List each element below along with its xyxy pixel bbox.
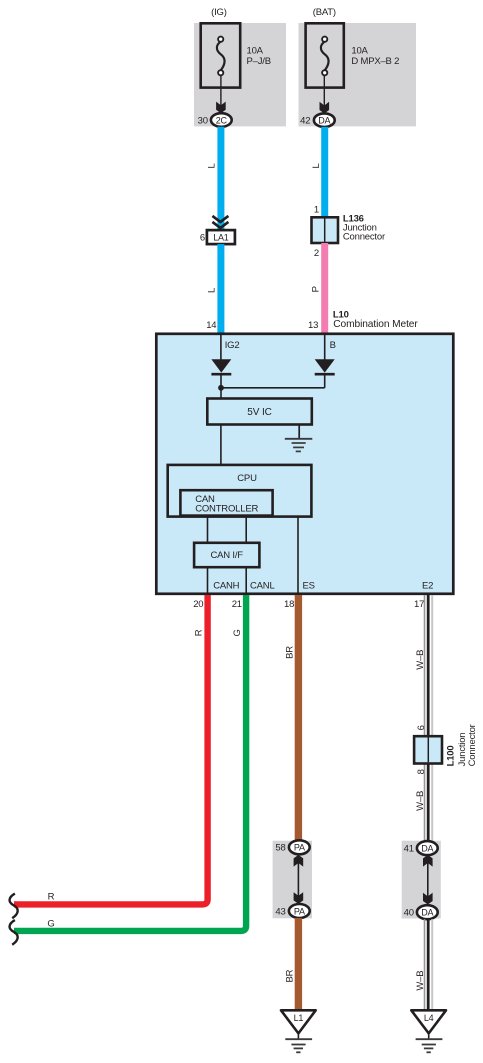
svg-text:Combination Meter: Combination Meter — [333, 319, 418, 330]
break squiggle red wire — [10, 894, 18, 919]
svg-text:(BAT): (BAT) — [313, 7, 336, 18]
svg-text:14: 14 — [206, 320, 216, 331]
connector oval DA pin 42 — [300, 113, 335, 127]
pin IG2 lead — [220, 335, 222, 360]
wire BR brown (lower) — [295, 918, 302, 1010]
svg-text:G: G — [232, 629, 243, 636]
svg-text:40: 40 — [404, 908, 414, 919]
wire W-B (E2) upper segment — [425, 595, 433, 842]
svg-text:CANH: CANH — [213, 581, 239, 592]
svg-text:L: L — [206, 288, 217, 293]
svg-text:18: 18 — [284, 599, 294, 610]
ground symbol L1 — [285, 1039, 312, 1052]
ground symbol L4 — [416, 1039, 443, 1052]
junction connector L136 — [312, 205, 385, 260]
svg-text:2: 2 — [314, 248, 319, 259]
svg-text:CONTROLLER: CONTROLLER — [195, 503, 258, 514]
svg-text:E2: E2 — [422, 581, 433, 592]
pin B lead — [324, 335, 326, 360]
fuse F2 10A D MPX-B 2 — [306, 23, 400, 87]
svg-text:DA: DA — [421, 843, 433, 853]
svg-text:L100: L100 — [445, 746, 456, 767]
svg-text:DA: DA — [421, 908, 433, 918]
svg-text:1: 1 — [314, 205, 319, 216]
wire L blue (lower, to pin 14) — [217, 244, 224, 333]
connector LA1 pin 6 — [200, 216, 235, 244]
break squiggle green wire — [10, 920, 18, 945]
svg-text:G: G — [47, 918, 54, 929]
diode D2 — [315, 359, 335, 388]
svg-text:30: 30 — [198, 115, 208, 126]
svg-text:CANL: CANL — [250, 581, 275, 592]
svg-text:5V IC: 5V IC — [247, 407, 272, 418]
svg-text:ES: ES — [303, 581, 315, 592]
svg-text:W–B: W–B — [415, 791, 426, 811]
wire P pink — [321, 243, 328, 333]
svg-text:58: 58 — [275, 843, 285, 854]
svg-text:CAN I/F: CAN I/F — [211, 550, 244, 561]
wire CAN controller to CAN I/F (left) — [207, 517, 209, 543]
connector oval 2C pin 30 — [198, 113, 232, 127]
wire CAN I/F to CANL pin — [245, 567, 247, 593]
svg-text:6: 6 — [200, 233, 205, 244]
wire BR brown (ES) upper — [295, 595, 302, 841]
CAN I/F box — [194, 543, 259, 567]
svg-text:2C: 2C — [216, 115, 228, 125]
wire between DA connectors — [427, 861, 429, 900]
wire L blue (BAT feed) — [321, 127, 328, 218]
svg-text:21: 21 — [232, 599, 242, 610]
svg-text:R: R — [194, 629, 205, 636]
gray panel DA connectors — [402, 841, 441, 919]
svg-text:(IG): (IG) — [211, 7, 227, 18]
arrow down into 40 DA — [423, 893, 433, 905]
svg-text:P–J/B: P–J/B — [247, 56, 271, 67]
fuse block gray panel (BAT side) — [299, 23, 417, 126]
svg-text:CPU: CPU — [237, 473, 257, 484]
connector oval 40 DA — [404, 905, 438, 919]
svg-text:L4: L4 — [424, 1013, 434, 1023]
svg-text:W–B: W–B — [415, 971, 426, 991]
arrow up into 41 DA — [423, 855, 433, 867]
svg-text:L: L — [206, 163, 217, 168]
CPU box — [168, 465, 312, 517]
connector oval 41 DA — [404, 841, 438, 855]
arrow up into 58 PA — [294, 855, 304, 867]
connector oval 43 PA — [275, 904, 309, 918]
ground stem L4 — [428, 1033, 430, 1039]
CAN controller box — [180, 490, 272, 515]
fuse F1 10A P-J/B — [201, 23, 271, 87]
svg-text:W–B: W–B — [415, 650, 426, 670]
wire 5V IC to ground — [298, 425, 300, 439]
svg-text:6: 6 — [416, 725, 427, 730]
wire G green (CANL) — [14, 595, 246, 931]
wire L blue (IG feed, upper) — [217, 127, 224, 231]
wire CPU to ES pin — [297, 517, 299, 593]
5V IC box — [207, 399, 311, 425]
svg-text:43: 43 — [275, 906, 285, 917]
svg-text:Connector: Connector — [467, 724, 478, 766]
wire 5V IC to CPU — [220, 425, 222, 466]
wire diode join — [221, 387, 325, 389]
wire node to 5V IC — [220, 388, 222, 399]
svg-text:DA: DA — [318, 116, 330, 126]
junction connector L100 — [414, 736, 442, 763]
svg-text:42: 42 — [300, 116, 310, 127]
wire CAN controller to CAN I/F (right) — [245, 517, 247, 543]
svg-text:BR: BR — [285, 969, 296, 982]
arrow down into 43 PA — [294, 892, 304, 904]
wire R red (CANH) — [14, 595, 208, 904]
svg-text:L1: L1 — [294, 1013, 304, 1023]
svg-text:8: 8 — [416, 769, 427, 774]
svg-text:BR: BR — [285, 646, 296, 659]
svg-text:20: 20 — [193, 599, 203, 610]
svg-text:17: 17 — [414, 599, 424, 610]
svg-text:PA: PA — [294, 906, 305, 916]
svg-text:IG2: IG2 — [225, 340, 240, 351]
svg-text:B: B — [330, 340, 336, 351]
arrowhead into 2C — [216, 102, 226, 114]
svg-text:R: R — [48, 892, 55, 903]
wire CAN I/F to CANH pin — [207, 567, 209, 593]
connector oval 58 PA — [275, 840, 309, 854]
shield ground triangle L1 — [281, 1010, 316, 1033]
svg-text:Connector: Connector — [343, 232, 385, 243]
ECU box Combination Meter L10 — [156, 334, 453, 594]
node junction dot — [218, 385, 224, 391]
wire fuse F2 to connector — [323, 76, 325, 106]
fuse block gray panel (IG side) — [194, 23, 286, 126]
ground stem L1 — [297, 1033, 299, 1039]
diode D1 — [211, 359, 231, 388]
svg-text:41: 41 — [404, 844, 414, 855]
wire between PA connectors — [297, 860, 299, 899]
svg-text:LA1: LA1 — [213, 233, 229, 243]
wire W-B (lower segment) — [425, 919, 433, 1010]
arrowhead into DA — [320, 102, 330, 114]
svg-text:PA: PA — [294, 843, 305, 853]
svg-text:13: 13 — [308, 320, 318, 331]
svg-text:L: L — [311, 163, 322, 168]
svg-text:P: P — [311, 286, 322, 292]
gray panel PA connectors — [273, 841, 312, 919]
svg-text:D MPX–B 2: D MPX–B 2 — [351, 56, 399, 67]
wire fuse F1 to connector — [220, 76, 222, 106]
ground (internal) — [285, 439, 313, 452]
shield ground triangle L4 — [411, 1010, 446, 1033]
